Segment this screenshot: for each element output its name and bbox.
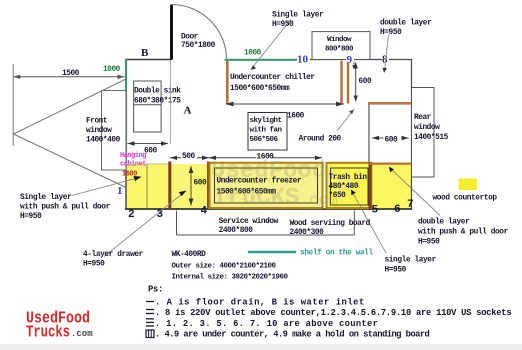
dim 600 vertical window bay — [355, 63, 357, 102]
svg-text:3: 3 — [157, 209, 164, 221]
svg-text:600: 600 — [385, 137, 398, 145]
svg-text:Single layer: Single layer — [272, 12, 324, 20]
svg-text:. 4.9 are under counter, 4.9 m: . 4.9 are under counter, 4.9 make a hold… — [155, 330, 430, 340]
thick brown partition right of gap — [207, 162, 210, 209]
notes with Chinese numerals — [146, 302, 154, 327]
pointer trash bin to single layer label — [352, 192, 386, 254]
svg-text:680*380*175: 680*380*175 — [134, 98, 181, 106]
svg-text:1000: 1000 — [103, 66, 121, 74]
svg-text:Ps:: Ps: — [148, 285, 163, 295]
dim 600 right bay — [372, 137, 409, 139]
dim line 500/1600 above counters — [170, 157, 322, 159]
svg-text:Undercounter chiller: Undercounter chiller — [230, 74, 315, 82]
right counter top rail — [369, 163, 412, 165]
svg-text:. A is floor drain, B is water: . A is floor drain, B is water inlet — [155, 298, 365, 308]
svg-text:. 1. 2. 3. 5. 6. 7. 10 are abo: . 1. 2. 3. 5. 6. 7. 10 are above counter — [155, 319, 378, 329]
double sink — [134, 81, 162, 132]
svg-text:H=950: H=950 — [272, 21, 294, 29]
small arrow under 9 — [353, 62, 355, 68]
svg-text:1500*600*650mm: 1500*600*650mm — [230, 85, 290, 93]
svg-text:wood countertop: wood countertop — [433, 195, 498, 203]
pointer right counter to double layer label — [390, 168, 440, 216]
svg-text:600: 600 — [194, 180, 208, 188]
svg-text:Wood serviing board: Wood serviing board — [290, 220, 371, 228]
window 800*800 — [312, 32, 370, 60]
undercounter chiller left rail — [226, 61, 229, 104]
svg-text:H=950: H=950 — [385, 267, 407, 275]
counter fill: middle gap (4) — [171, 164, 208, 209]
svg-text:1400*400: 1400*400 — [86, 137, 121, 145]
left counter top edge — [126, 163, 170, 165]
right wall — [411, 59, 413, 210]
counter fill: right counter (6,7) — [371, 164, 412, 209]
wood countertop swatch — [459, 179, 478, 191]
svg-text:Trucks: Trucks — [26, 323, 70, 342]
numbers — [128, 199, 414, 221]
svg-text:H=950: H=950 — [380, 29, 402, 37]
skylight — [248, 113, 287, 151]
svg-text:H=950: H=950 — [418, 239, 440, 247]
svg-text:WK-400RD: WK-400RD — [172, 251, 207, 259]
svg-text:Around 200: Around 200 — [299, 136, 342, 144]
svg-text:1600: 1600 — [287, 113, 305, 121]
svg-text:. 8 is 220V outlet above count: . 8 is 220V outlet above counter,1.2.3.4… — [155, 308, 511, 318]
svg-text:double layer: double layer — [380, 20, 432, 28]
svg-text:4: 4 — [201, 206, 208, 218]
svg-text:800*800: 800*800 — [325, 46, 354, 54]
svg-text:Internal size: 3920*2020*1960: Internal size: 3920*2020*1960 — [172, 274, 289, 282]
svg-text:Single layer: Single layer — [20, 194, 72, 202]
svg-text:with push & pull door: with push & pull door — [20, 204, 111, 212]
svg-text:window: window — [86, 127, 112, 135]
door swing arc — [172, 5, 227, 60]
wall green segment (door to 10) — [225, 59, 298, 61]
bottom wall — [125, 208, 412, 210]
svg-text:H=950: H=950 — [20, 213, 42, 221]
svg-text:Outer size: 4000*2100*2100: Outer size: 4000*2100*2100 — [172, 263, 277, 271]
pointer double layer top — [385, 35, 389, 72]
svg-text:Rear: Rear — [414, 114, 432, 122]
front window — [102, 91, 127, 171]
trailer tongue lower — [14, 134, 127, 188]
svg-text:2400*300: 2400*300 — [290, 229, 325, 237]
partition line under door — [170, 60, 172, 144]
wall top-left segment — [125, 59, 172, 61]
pointer 4-layer drawer — [104, 192, 185, 257]
dim 600 sink — [128, 143, 169, 145]
svg-text:UsedFood: UsedFood — [211, 158, 326, 185]
svg-text:600: 600 — [359, 78, 372, 86]
right counter left rail — [369, 162, 372, 209]
wall top-right segment — [310, 59, 412, 61]
undercounter freezer — [210, 163, 323, 208]
svg-text:500: 500 — [182, 153, 195, 161]
svg-text:skylight: skylight — [250, 117, 282, 125]
svg-text:A: A — [184, 105, 192, 117]
watermark UsedFoodTrucks.com — [211, 158, 338, 212]
hitch tick — [12, 64, 14, 146]
svg-text:2: 2 — [128, 209, 135, 221]
svg-text:Service window: Service window — [219, 218, 279, 226]
svg-text:1000: 1000 — [244, 50, 262, 58]
left wall lower — [125, 166, 127, 210]
svg-text:2400*800: 2400*800 — [219, 227, 254, 235]
svg-text:9: 9 — [347, 54, 353, 66]
svg-text:6: 6 — [394, 204, 401, 216]
svg-text:Window: Window — [327, 36, 352, 44]
svg-text:750*1800: 750*1800 — [181, 42, 216, 50]
svg-text:with fan: with fan — [250, 127, 283, 135]
svg-text:480*480: 480*480 — [329, 183, 359, 191]
pointer single layer top — [252, 20, 291, 69]
svg-text:5: 5 — [372, 205, 379, 217]
trash bin — [327, 163, 372, 208]
dim 1600 chiller — [226, 103, 345, 105]
counter fill: left counter (2,3) — [126, 164, 170, 209]
svg-text:Hanging: Hanging — [120, 152, 146, 160]
shelf on the wall — [248, 251, 296, 253]
service window bracket — [177, 234, 355, 236]
svg-text:4-layer drawer: 4-layer drawer — [83, 251, 144, 259]
window lower rails — [340, 61, 342, 104]
svg-text:with push & pull door: with push & pull door — [418, 229, 509, 237]
door leaf — [170, 5, 173, 60]
svg-text:single layer: single layer — [385, 257, 437, 265]
pointer single layer left — [72, 178, 138, 196]
around200 pointer — [337, 110, 354, 131]
svg-text:window: window — [414, 124, 440, 132]
left wall green — [125, 59, 127, 166]
left counter divider — [146, 164, 148, 209]
rear window — [412, 88, 435, 178]
svg-text:600: 600 — [144, 148, 157, 156]
svg-text:1400*515: 1400*515 — [414, 134, 449, 142]
step counter rail brown — [368, 102, 412, 105]
bottom gray band — [0, 344, 522, 350]
dim 600 vertical mid — [190, 166, 192, 206]
svg-text:B: B — [141, 47, 149, 59]
svg-text:7: 7 — [407, 199, 414, 211]
svg-text:double layer: double layer — [418, 219, 470, 227]
svg-text:Door: Door — [181, 34, 199, 42]
svg-text:Trash bin: Trash bin — [329, 174, 368, 182]
svg-text:1: 1 — [117, 185, 123, 197]
svg-text:.com: .com — [71, 329, 93, 339]
svg-text:Double sink: Double sink — [134, 88, 181, 96]
svg-text:shelf on the wall: shelf on the wall — [300, 250, 373, 258]
logo — [26, 309, 93, 342]
svg-text:506*506: 506*506 — [250, 136, 279, 144]
svg-text:H=950: H=950 — [83, 261, 105, 269]
svg-text:1500: 1500 — [62, 70, 80, 78]
trailer tongue upper — [14, 79, 127, 134]
thick brown partition left — [168, 162, 171, 209]
step wall vertical — [368, 104, 370, 165]
svg-text:10: 10 — [297, 54, 309, 66]
dim 1500 — [13, 76, 124, 78]
svg-text:Front: Front — [86, 118, 107, 126]
